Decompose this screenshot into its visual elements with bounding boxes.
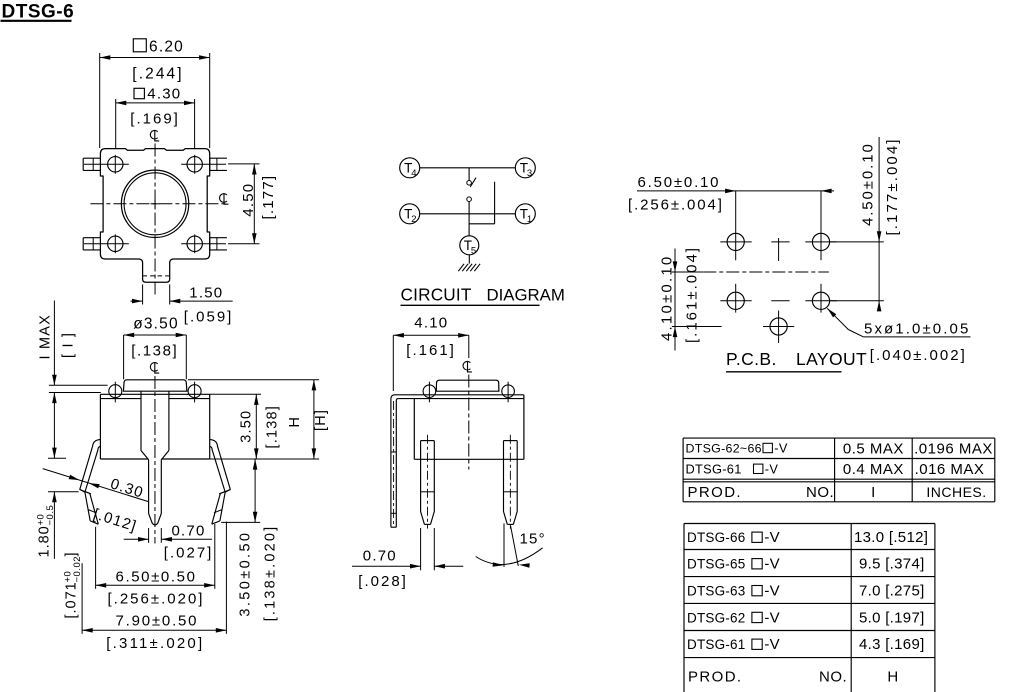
svg-text:ø3.50: ø3.50 [133, 316, 179, 333]
svg-text:.0196 MAX: .0196 MAX [914, 441, 993, 458]
svg-text:-V: -V [764, 529, 780, 546]
svg-text:LAYOUT: LAYOUT [796, 349, 867, 369]
svg-text:0.70: 0.70 [363, 547, 397, 564]
svg-text:[.028]: [.028] [358, 573, 408, 590]
svg-text:7.0 [.275]: 7.0 [.275] [859, 583, 925, 600]
svg-text:[.059]: [.059] [184, 308, 234, 325]
svg-text:0.4 MAX: 0.4 MAX [843, 461, 904, 478]
svg-text:1: 1 [527, 214, 532, 225]
svg-text:[.161±.004]: [.161±.004] [683, 246, 700, 343]
svg-text:1.50: 1.50 [189, 284, 223, 301]
svg-text:9.5 [.374]: 9.5 [.374] [859, 556, 925, 573]
svg-text:[.311±.020]: [.311±.020] [106, 635, 204, 652]
svg-text:4.50: 4.50 [240, 183, 257, 217]
svg-text:[.177±.004]: [.177±.004] [884, 137, 901, 235]
svg-text:[.040±.002]: [.040±.002] [870, 347, 967, 364]
svg-text:5.0 [.197]: 5.0 [.197] [859, 609, 925, 626]
svg-text:DTSG-62~66: DTSG-62~66 [686, 442, 762, 456]
svg-text:DTSG-65: DTSG-65 [687, 557, 745, 572]
svg-text:13.0 [.512]: 13.0 [.512] [854, 529, 928, 546]
svg-text:−0.5: −0.5 [45, 505, 56, 526]
svg-text:[.138]: [.138] [265, 405, 281, 448]
svg-text:2: 2 [411, 214, 416, 225]
svg-text:[.027]: [.027] [164, 544, 214, 561]
svg-text:6.50±0.50: 6.50±0.50 [116, 568, 197, 585]
svg-text:I MAX: I MAX [37, 314, 53, 359]
svg-text:[.256±.020]: [.256±.020] [108, 590, 205, 607]
svg-text:DTSG-63: DTSG-63 [687, 584, 745, 599]
svg-text:INCHES.: INCHES. [926, 484, 986, 500]
svg-text:PROD.: PROD. [688, 669, 743, 686]
svg-text:3.50±0.50: 3.50±0.50 [238, 531, 254, 617]
svg-text:[.244]: [.244] [132, 65, 183, 82]
svg-text:I: I [871, 484, 876, 501]
svg-text:[.256±.004]: [.256±.004] [628, 197, 724, 214]
svg-text:4.30: 4.30 [147, 85, 181, 102]
svg-text:4.10±0.10: 4.10±0.10 [659, 255, 676, 341]
svg-text:DTSG-66: DTSG-66 [687, 530, 745, 545]
svg-text:-V: -V [764, 636, 780, 653]
svg-text:NO.: NO. [806, 484, 834, 501]
svg-text:3.50: 3.50 [239, 410, 255, 443]
svg-text:6.20: 6.20 [149, 38, 184, 55]
svg-text:]: ] [63, 552, 79, 556]
svg-text:.016 MAX: .016 MAX [915, 461, 985, 478]
svg-text:-V: -V [764, 583, 780, 600]
svg-text:4.10: 4.10 [414, 314, 448, 331]
svg-text:-V: -V [764, 609, 780, 626]
svg-text:[.169]: [.169] [130, 110, 180, 127]
svg-text:H: H [287, 416, 303, 428]
svg-text:CIRCUIT: CIRCUIT [401, 285, 472, 305]
svg-text:4: 4 [411, 168, 416, 179]
svg-text:DTSG-61: DTSG-61 [687, 637, 745, 652]
svg-text:[.161]: [.161] [406, 342, 456, 359]
svg-text:-V: -V [765, 461, 779, 476]
svg-text:P.C.B.: P.C.B. [726, 349, 777, 369]
svg-text:1.80: 1.80 [36, 525, 52, 557]
svg-text:PROD.: PROD. [688, 484, 743, 501]
svg-text:6.50±0.10: 6.50±0.10 [638, 174, 721, 191]
svg-text:[.138]: [.138] [131, 343, 178, 360]
svg-text:4.3 [.169]: 4.3 [.169] [859, 636, 925, 653]
svg-text:−0.02: −0.02 [72, 556, 83, 583]
svg-text:DTSG-6: DTSG-6 [2, 2, 75, 23]
svg-text:DTSG-62: DTSG-62 [687, 610, 745, 625]
svg-text:[.177]: [.177] [260, 175, 277, 220]
svg-text:DTSG-61: DTSG-61 [686, 461, 742, 476]
svg-text:[.071: [.071 [63, 581, 79, 618]
svg-text:5xø1.0±0.05: 5xø1.0±0.05 [864, 321, 970, 338]
svg-text:[ I ]: [ I ] [61, 332, 77, 358]
svg-text:[.138±.020]: [.138±.020] [263, 525, 279, 622]
svg-text:-V: -V [764, 556, 780, 573]
svg-text:[H]: [H] [313, 409, 329, 431]
svg-text:3: 3 [527, 168, 532, 179]
svg-text:4.50±0.10: 4.50±0.10 [860, 142, 877, 226]
svg-text:DIAGRAM: DIAGRAM [487, 286, 565, 305]
svg-text:0.5 MAX: 0.5 MAX [843, 441, 904, 458]
svg-text:H: H [887, 669, 898, 686]
svg-text:5: 5 [471, 245, 476, 256]
svg-text:-V: -V [774, 441, 788, 456]
svg-text:7.90±0.50: 7.90±0.50 [116, 612, 199, 629]
svg-text:0.70: 0.70 [172, 522, 206, 539]
svg-text:NO.: NO. [819, 669, 847, 686]
svg-text:15°: 15° [520, 530, 546, 547]
